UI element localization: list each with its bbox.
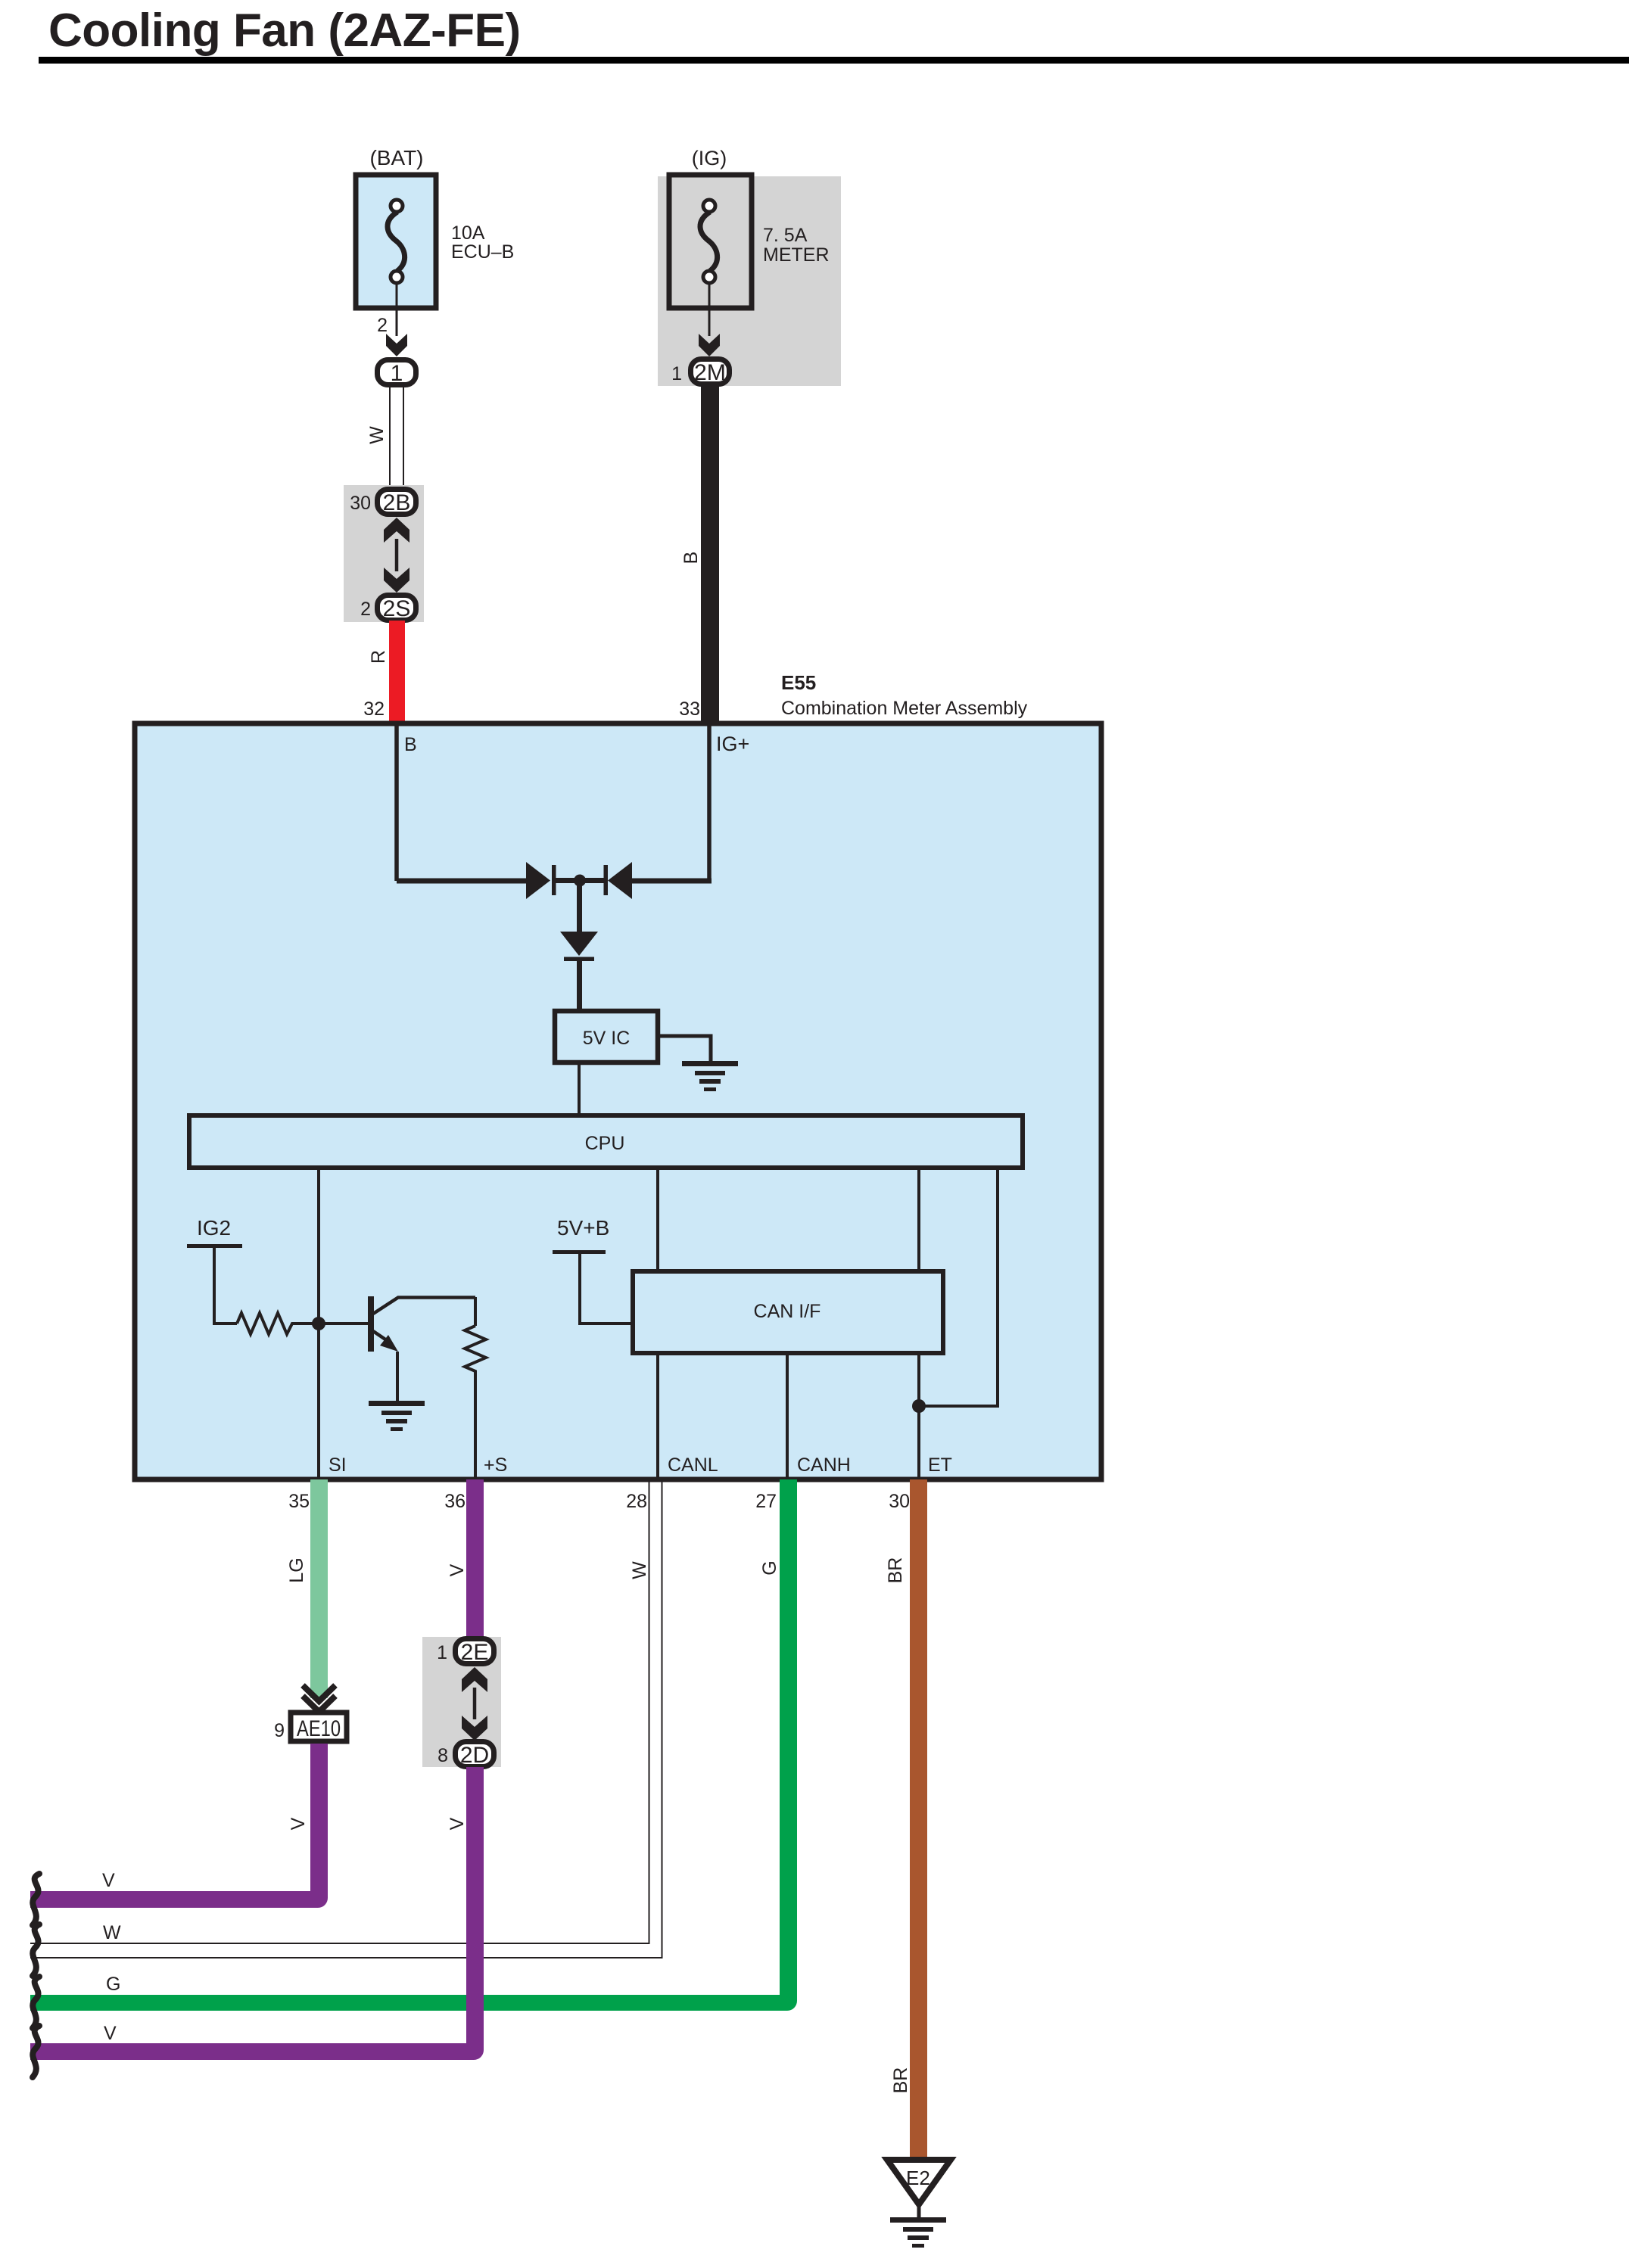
svg-text:2E: 2E [461,1640,489,1665]
svg-text:10A: 10A [451,222,485,244]
svg-text:BR: BR [890,2067,911,2094]
svg-text:V: V [102,1870,115,1891]
svg-text:W: W [629,1561,650,1579]
svg-text:METER: METER [763,244,830,266]
svg-text:2M: 2M [694,360,726,385]
svg-text:5V+B: 5V+B [557,1216,609,1240]
svg-text:B: B [680,552,702,565]
svg-text:5V IC: 5V IC [583,1028,631,1049]
svg-text:LG: LG [286,1557,307,1582]
svg-text:E55: E55 [781,671,816,694]
svg-text:CANH: CANH [797,1454,851,1476]
svg-text:Combination Meter Assembly: Combination Meter Assembly [781,698,1028,719]
svg-text:BR: BR [885,1557,906,1584]
svg-text:R: R [368,650,389,664]
svg-text:30: 30 [350,493,371,514]
svg-text:V: V [447,1817,468,1830]
svg-text:2B: 2B [383,490,411,515]
svg-text:9: 9 [274,1720,285,1741]
svg-text:30: 30 [889,1491,910,1512]
svg-text:V: V [447,1563,468,1576]
svg-text:1: 1 [671,363,682,384]
svg-text:2: 2 [360,599,371,620]
svg-text:ECU–B: ECU–B [451,241,514,263]
svg-text:28: 28 [626,1491,647,1512]
svg-text:1: 1 [391,361,403,386]
svg-text:E2: E2 [906,2167,930,2189]
svg-text:IG2: IG2 [197,1216,231,1240]
svg-text:2S: 2S [383,596,411,621]
svg-text:B: B [404,734,417,755]
svg-text:V: V [288,1817,309,1830]
svg-text:V: V [104,2023,117,2044]
svg-text:7. 5A: 7. 5A [763,225,808,246]
svg-text:(BAT): (BAT) [369,146,423,170]
svg-text:27: 27 [755,1491,777,1512]
svg-text:G: G [759,1560,780,1575]
svg-text:2: 2 [377,315,388,336]
svg-text:35: 35 [288,1491,310,1512]
svg-text:2D: 2D [460,1743,489,1768]
svg-text:Cooling Fan (2AZ-FE): Cooling Fan (2AZ-FE) [48,5,521,57]
svg-text:ET: ET [928,1454,952,1476]
svg-text:32: 32 [363,698,385,720]
svg-text:+S: +S [484,1454,507,1476]
svg-text:CANL: CANL [668,1454,718,1476]
svg-text:G: G [106,1974,120,1995]
svg-text:IG+: IG+ [716,733,749,755]
svg-text:33: 33 [679,698,700,720]
svg-text:(IG): (IG) [692,147,727,170]
svg-text:SI: SI [329,1454,347,1476]
svg-text:W: W [366,426,388,444]
svg-text:1: 1 [437,1642,447,1663]
svg-text:36: 36 [444,1491,466,1512]
svg-text:CPU: CPU [585,1133,625,1154]
svg-text:8: 8 [437,1745,448,1766]
svg-text:CAN I/F: CAN I/F [754,1301,821,1322]
svg-text:AE10: AE10 [297,1716,341,1741]
svg-text:W: W [103,1922,121,1943]
